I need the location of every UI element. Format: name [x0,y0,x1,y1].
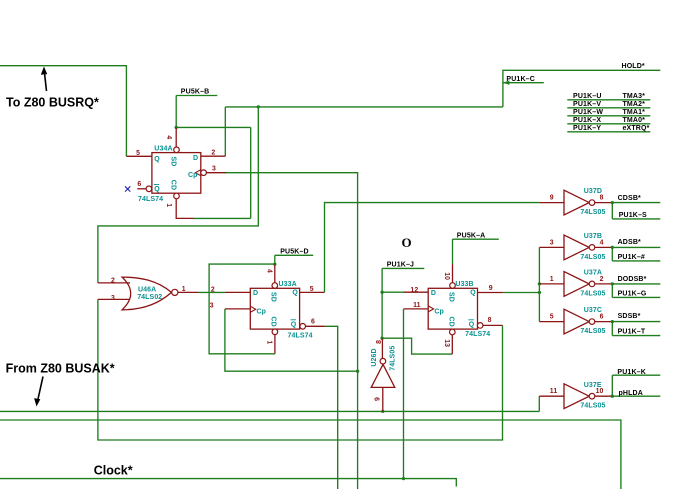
junction clock to U33A.Cp [356,370,359,373]
junction output node [611,246,614,249]
svg-text:3: 3 [111,295,115,302]
wire PU5K-B branch left [193,217,251,219]
U46A output bubble [172,289,178,295]
svg-text:SD: SD [448,292,455,302]
U33B Cp edge marker [428,306,433,312]
wire net HOLD* line down to PU1K-C node [503,70,660,107]
U33B Qbar bubble (pin 8) [477,323,483,329]
junction PU1K-J to U26D.out [380,337,383,340]
svg-text:74LS05: 74LS05 [580,209,605,216]
svg-text:D: D [193,155,198,162]
U26D output bubble [380,358,386,364]
svg-text:1: 1 [266,340,273,344]
svg-text:11: 11 [550,388,558,395]
inverter U37E 74LS05 [564,384,589,409]
svg-text:74LS02: 74LS02 [137,294,162,301]
junction U33B.Q node [538,291,541,294]
svg-text:3: 3 [212,165,216,172]
svg-text:D: D [253,290,258,297]
inverter U37A 74LS05 [564,272,589,297]
wire net CDSB* label line [612,202,660,204]
wire U26D pin 9 input stub [382,388,384,412]
svg-text:5: 5 [550,314,554,321]
inverter U37B 74LS05 [564,235,589,260]
svg-text:74LS74: 74LS74 [288,333,313,340]
wire U34A pin 3 (Cp) stub [205,172,226,174]
svg-text:PU1K–#: PU1K–# [618,254,645,261]
wire U33A pin 5 (Q) stub [300,291,325,293]
flip-flop U34A 74LS74 (mirrored) [152,153,201,194]
arrowhead on PU1K-C label line [503,81,510,85]
svg-text:9: 9 [374,397,381,401]
svg-text:74LS74: 74LS74 [138,196,163,203]
flip-flop U33B 74LS74 [428,288,477,329]
svg-text:5: 5 [310,286,314,293]
junction on Clock* line [402,477,405,480]
svg-text:PU5K–D: PU5K–D [280,249,309,256]
wire U46A pin 3 stub [98,298,130,300]
svg-text:To Z80 BUSRQ*: To Z80 BUSRQ* [6,96,99,110]
svg-text:Q: Q [154,186,160,193]
svg-text:eXTRQ*: eXTRQ* [623,125,650,132]
U34A Cp edge marker [195,170,200,176]
svg-text:Q: Q [154,156,160,163]
wire U34A pin 1 (CD) stub [176,199,193,219]
svg-text:DODSB*: DODSB* [618,276,647,283]
wire branch to PU1K–# [611,247,613,261]
wire U33B pin 11 (Cp) stub [404,308,429,310]
wire output stub [595,283,613,285]
junction PU5K-B node [175,126,178,129]
svg-text:8: 8 [488,317,492,324]
svg-text:PU5K–B: PU5K–B [181,89,210,96]
wire U46A pin 2 stub [98,282,130,284]
wire PU1K-J to U33B.CD [382,338,452,354]
wire net PU5K-A label line [453,238,499,240]
svg-text:U46A: U46A [138,286,156,293]
wire fanout vertical [538,247,540,321]
svg-text:74LS05: 74LS05 [580,290,605,297]
svg-text:6: 6 [311,319,315,326]
wire U33A pin 3 (Cp) stub [225,308,250,310]
svg-text:SDSB*: SDSB* [618,313,641,320]
U37C output bubble [589,319,595,325]
svg-text:5: 5 [136,150,140,157]
wire net PU1K-J label line [382,267,424,269]
junction output node [611,320,614,323]
svg-text:O: O [402,235,412,250]
wire clock net vertical [226,173,358,489]
wire U33A.Qbar to bottom edge [325,326,338,489]
svg-text:2: 2 [211,286,215,293]
svg-text:8: 8 [376,340,383,344]
wire branch to PU1K–T [611,322,613,336]
flip-flop U33A 74LS74 [250,288,299,329]
wire U33A.Q up and right to U37D [325,203,541,293]
svg-text:PU1K–G: PU1K–G [618,290,647,297]
svg-text:Clock*: Clock* [94,463,133,477]
svg-text:10: 10 [596,388,604,395]
arrow to BUSAK wire [34,377,43,407]
wire net PU1K–X/TMA0* line [567,123,650,125]
svg-text:D: D [431,290,436,297]
svg-text:TMA2*: TMA2* [623,101,646,108]
wire net PU1K-C label line [503,82,544,84]
wire net BUSRQ from left edge to U34A.Q [0,66,126,157]
wire output stub [595,202,613,204]
NOR gate U46A 74LS02 [122,277,171,310]
svg-text:1: 1 [182,286,186,293]
wire U34A pin 2 stub [201,155,226,157]
wire U34A pin 4 (SD) stub [175,127,177,147]
svg-text:U34A: U34A [154,146,172,153]
wire U37B pin 3 stub [539,246,564,248]
svg-text:Cp: Cp [257,308,267,315]
wire branch to PU1K–K [611,375,613,396]
svg-text:9: 9 [489,285,493,292]
svg-text:CD: CD [270,317,277,327]
wire U33B pin 9 (Q) stub [478,292,503,294]
U34A Cp bubble (pin 3) [201,170,207,176]
junction to U37A input [538,282,541,285]
inverter U37D 74LS05 [564,190,589,215]
wire U37D pin 9 stub [540,202,564,204]
wire output stub [595,246,613,248]
junction output node [611,201,614,204]
svg-text:PU1K–S: PU1K–S [619,212,647,219]
U34A pin 6 stub (no connect) [137,188,146,190]
svg-text:4: 4 [266,269,273,273]
wire U33A pin 6 (Qbar) stub [306,325,325,327]
svg-text:SD: SD [270,292,277,302]
wire U33B pin 13 (CD) stub [451,335,453,354]
U33A SD bubble (pin 4) [272,283,278,289]
wire net PU1K–S label line [612,218,660,220]
wire U33B pin 12 (D) stub [404,291,429,293]
svg-text:PU5K–A: PU5K–A [457,232,486,239]
wire PU1K-J vertical [381,268,383,338]
svg-text:TMA1*: TMA1* [623,109,646,116]
svg-text:CDSB*: CDSB* [618,195,641,202]
wire net DODSB* label line [612,283,660,285]
wire branch to PU1K–G [611,284,613,298]
wire output stub [595,395,613,397]
svg-text:SD: SD [170,157,177,167]
svg-text:12: 12 [410,287,418,294]
svg-text:Cp: Cp [434,308,444,315]
U37D output bubble [589,200,595,206]
svg-text:2: 2 [211,150,215,157]
svg-text:74LS74: 74LS74 [465,331,490,338]
svg-text:2: 2 [111,277,115,284]
junction PU5K-D node [273,262,276,265]
svg-text:1: 1 [165,203,172,207]
svg-text:CD: CD [170,180,177,190]
wire U46A.out to U33A.D [199,291,225,293]
wire net PU1K–G label line [612,296,660,298]
wire net Clock* line [0,479,456,487]
wire BUSAK up to U37E [538,396,540,411]
no-connect X on U34A pin 6 [125,186,130,191]
wire long net to bottom right edge [0,420,621,489]
svg-text:PU1K–T: PU1K–T [618,329,646,336]
svg-text:74LS05: 74LS05 [580,403,605,410]
U33A CD bubble (pin 1) [272,329,278,335]
inverter U37C 74LS05 [564,309,589,334]
svg-text:From Z80 BUSAK*: From Z80 BUSAK* [6,361,115,375]
svg-text:HOLD*: HOLD* [622,63,645,70]
inverter U26D 74LS05 (pointing up) [371,364,395,387]
svg-text:9: 9 [550,195,554,202]
svg-text:Q: Q [292,290,298,297]
arrow to BUSRQ wire [41,67,47,92]
svg-text:10: 10 [443,272,450,280]
wire PU5K-B branch right [176,126,251,128]
U37E output bubble [589,393,595,399]
wire U33B pin 10 (SD) stub [452,264,454,283]
svg-text:74LS05: 74LS05 [389,346,396,371]
U33A Cp edge marker [250,306,255,312]
svg-text:6: 6 [137,181,141,188]
svg-text:ADSB*: ADSB* [618,239,641,246]
wire U37E pin 11 stub [539,395,564,397]
wire U33B.Q right [503,292,540,294]
wire net PU1K–Y/eXTRQ* line [567,131,650,133]
wire net PU1K–T label line [612,335,660,337]
wire U33B.Cp down to clock line [403,309,405,479]
svg-text:2: 2 [600,276,604,283]
junction PU1K-J to U33B.D [380,291,383,294]
svg-text:pHLDA: pHLDA [619,390,643,397]
wire net pHLDA label line [612,395,660,397]
svg-text:3: 3 [210,302,214,309]
wire U33A.Cp branch [225,309,358,371]
svg-text:PU1K–C: PU1K–C [506,76,535,83]
svg-text:U33B: U33B [455,281,473,288]
wire U33B.Qbar to U46A input 3 [98,299,503,440]
svg-text:74LS05: 74LS05 [580,328,605,335]
wire net PU1K–U/TMA3* line [567,99,650,101]
junction BUSAK to U26D input [381,410,384,413]
wire down to U34A.D [224,107,226,156]
wire branch to PU1K–S [611,203,613,219]
svg-text:PU1K–W: PU1K–W [573,109,603,116]
svg-text:8: 8 [600,195,604,202]
wire U33A pin 1 (CD) stub [274,335,276,354]
svg-text:PU1K–J: PU1K–J [387,262,414,269]
wire net ADSB* label line [612,246,660,248]
wire net PU5K-D label line [275,254,313,256]
wire net PU1K–# label line [612,260,660,262]
wire net PU5K-B label line [176,95,217,97]
wire PU5K-D loop to U33A.CD [209,264,275,354]
svg-text:U26D: U26D [371,348,378,366]
wire to U33B.D [382,291,403,293]
svg-text:TMA3*: TMA3* [623,93,646,100]
wire U37C pin 5 stub [539,321,564,323]
wire HOLD net to U46A input 2 [98,107,258,283]
wire U46A output pin 1 stub [178,291,199,293]
U33B CD bubble (pin 13) [450,329,456,335]
svg-text:4: 4 [600,239,604,246]
junction output node [611,282,614,285]
U33A Qbar bubble (pin 6) [300,324,306,330]
wire net BUSAK* horizontal [0,410,539,412]
svg-text:PU1K–V: PU1K–V [573,101,601,108]
svg-text:Q: Q [291,322,297,329]
wire U37A pin 1 stub [539,283,564,285]
wire output stub [595,321,613,323]
U34A CD bubble (pin 1) [174,193,180,199]
U37A output bubble [589,281,595,287]
wire U33A pin 2 (D) stub [225,291,250,293]
wire PU5K-D down [274,255,276,264]
svg-text:Q: Q [470,290,476,297]
svg-text:74LS05: 74LS05 [580,254,605,261]
wire PU5K-B down to junction [175,96,177,128]
svg-text:3: 3 [550,239,554,246]
svg-text:1: 1 [550,276,554,283]
wire U33A pin 4 (SD) stub [274,264,276,283]
wire net PU1K–W/TMA1* line [567,115,650,117]
U37B output bubble [589,245,595,251]
wire net PU1K–V/TMA2* line [567,107,650,109]
wire net PU1K–K label line [612,374,660,376]
svg-text:Q: Q [469,322,475,329]
svg-text:PU1K–U: PU1K–U [573,93,602,100]
svg-text:13: 13 [443,339,450,347]
wire U26D pin 8 output stub [381,338,383,358]
svg-text:4: 4 [165,135,172,139]
svg-text:U33A: U33A [279,281,297,288]
junction HOLD net branch [257,105,260,108]
svg-text:6: 6 [600,314,604,321]
svg-text:TMA0*: TMA0* [623,117,646,124]
svg-text:11: 11 [413,302,421,309]
wire HOLD net horizontal [225,106,503,108]
junction output node [611,395,614,398]
wire U34A pin 5 stub [126,155,152,157]
U34A SD bubble (pin 4) [174,147,180,153]
U34A Qbar bubble (pin 6) [146,186,152,192]
U33B SD bubble (pin 10) [450,283,456,289]
svg-text:PU1K–X: PU1K–X [573,117,601,124]
wire PU5K-A down [452,239,454,264]
wire net SDSB* label line [612,321,660,323]
svg-text:CD: CD [448,317,455,327]
svg-text:PU1K–K: PU1K–K [617,369,646,376]
wire PU5K-B branch down [250,127,252,218]
svg-text:Cp: Cp [188,172,198,179]
svg-text:PU1K–Y: PU1K–Y [573,125,601,132]
wire U33B pin 8 (Qbar) stub [482,324,503,326]
